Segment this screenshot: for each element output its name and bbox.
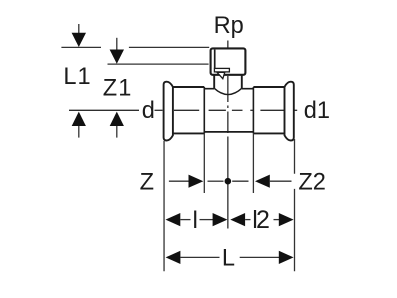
dimension Z1 down arrow <box>116 38 118 50</box>
svg-text:d1: d1 <box>304 98 330 124</box>
dimension L1 up arrow <box>72 112 86 126</box>
dimension Z2 line and arrow <box>232 180 248 182</box>
right press collar bead <box>285 82 294 141</box>
left insertion stop line <box>203 87 205 133</box>
dimension Z line and arrow <box>169 180 189 182</box>
svg-text:Z2: Z2 <box>298 170 326 196</box>
dimension L arrows and line <box>166 251 181 264</box>
right socket tube <box>253 87 284 133</box>
left socket tube <box>173 87 204 133</box>
extension line right fitting end <box>294 139 296 271</box>
threaded socket nut Rp <box>211 48 246 74</box>
branch neck <box>214 75 242 88</box>
wire horizontal centerline of body <box>69 109 297 111</box>
dimension L1 down arrow <box>78 24 80 34</box>
node center dot <box>225 178 232 185</box>
svg-text:l: l <box>193 207 198 234</box>
dimension l2 arrows and line <box>230 213 245 226</box>
dimension Z1 up arrow <box>110 112 124 126</box>
left press collar bead <box>164 82 173 141</box>
extension line left stop <box>203 133 205 193</box>
svg-text:Z1: Z1 <box>103 76 133 102</box>
branch saddle arc <box>214 88 242 94</box>
extension line left fitting end <box>163 141 165 271</box>
svg-text:L1: L1 <box>63 64 91 90</box>
right insertion stop line <box>252 87 254 133</box>
dimension L1 top reference line <box>61 46 209 48</box>
wire vertical centerline of branch <box>227 41 229 229</box>
extension line right stop <box>252 133 254 193</box>
nut facet line <box>214 50 216 69</box>
body tube <box>204 89 253 132</box>
svg-text:d: d <box>142 98 155 124</box>
svg-text:Z: Z <box>140 170 154 196</box>
svg-text:l2: l2 <box>252 206 269 234</box>
thread runout notch <box>217 72 225 78</box>
svg-text:L: L <box>222 246 235 272</box>
dimension Z1 top reference line <box>108 63 209 65</box>
dimension l arrows and line <box>166 213 181 226</box>
svg-text:Rp: Rp <box>214 13 244 39</box>
thread end ring <box>214 68 229 72</box>
